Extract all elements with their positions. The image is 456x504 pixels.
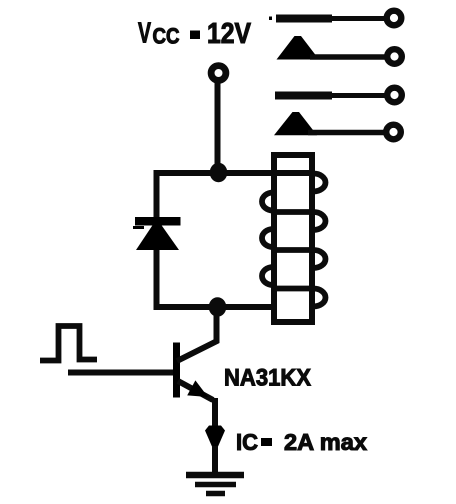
junction node A <box>210 163 228 183</box>
transistor Q1 <box>173 341 218 401</box>
terminal VCC <box>211 66 226 81</box>
wire bottom horizontal <box>154 304 277 310</box>
text VCC = 12V <box>138 18 252 51</box>
relay contact row 2 (movable, arrow) <box>277 36 402 64</box>
svg-text:2A max: 2A max <box>284 429 367 455</box>
diode D1 flyback <box>133 217 181 250</box>
wire base <box>68 370 175 376</box>
arrow IC current direction <box>205 426 225 451</box>
relay contact row 1 <box>269 11 401 26</box>
svg-text:CC: CC <box>153 24 180 49</box>
junction node B <box>209 297 227 317</box>
wire top horizontal <box>154 170 312 176</box>
relay contact row 3 <box>275 88 402 103</box>
text IC = 2A max <box>236 429 367 455</box>
relay coil K1 body <box>274 155 312 322</box>
svg-text:NA31KX: NA31KX <box>224 365 312 392</box>
relay coil K1 turns <box>262 174 326 307</box>
pulse input symbol <box>40 326 97 361</box>
ground <box>186 475 244 494</box>
wire to ground <box>212 446 218 476</box>
wire left vertical <box>154 170 160 310</box>
wire VCC vertical <box>215 82 221 173</box>
wire collector vertical <box>214 306 220 343</box>
svg-text:V: V <box>138 18 151 50</box>
svg-text:IC: IC <box>236 429 258 455</box>
relay contact row 4 (movable, arrow) <box>274 112 401 139</box>
wire emitter vertical <box>212 398 218 430</box>
svg-text:12V: 12V <box>207 18 252 50</box>
